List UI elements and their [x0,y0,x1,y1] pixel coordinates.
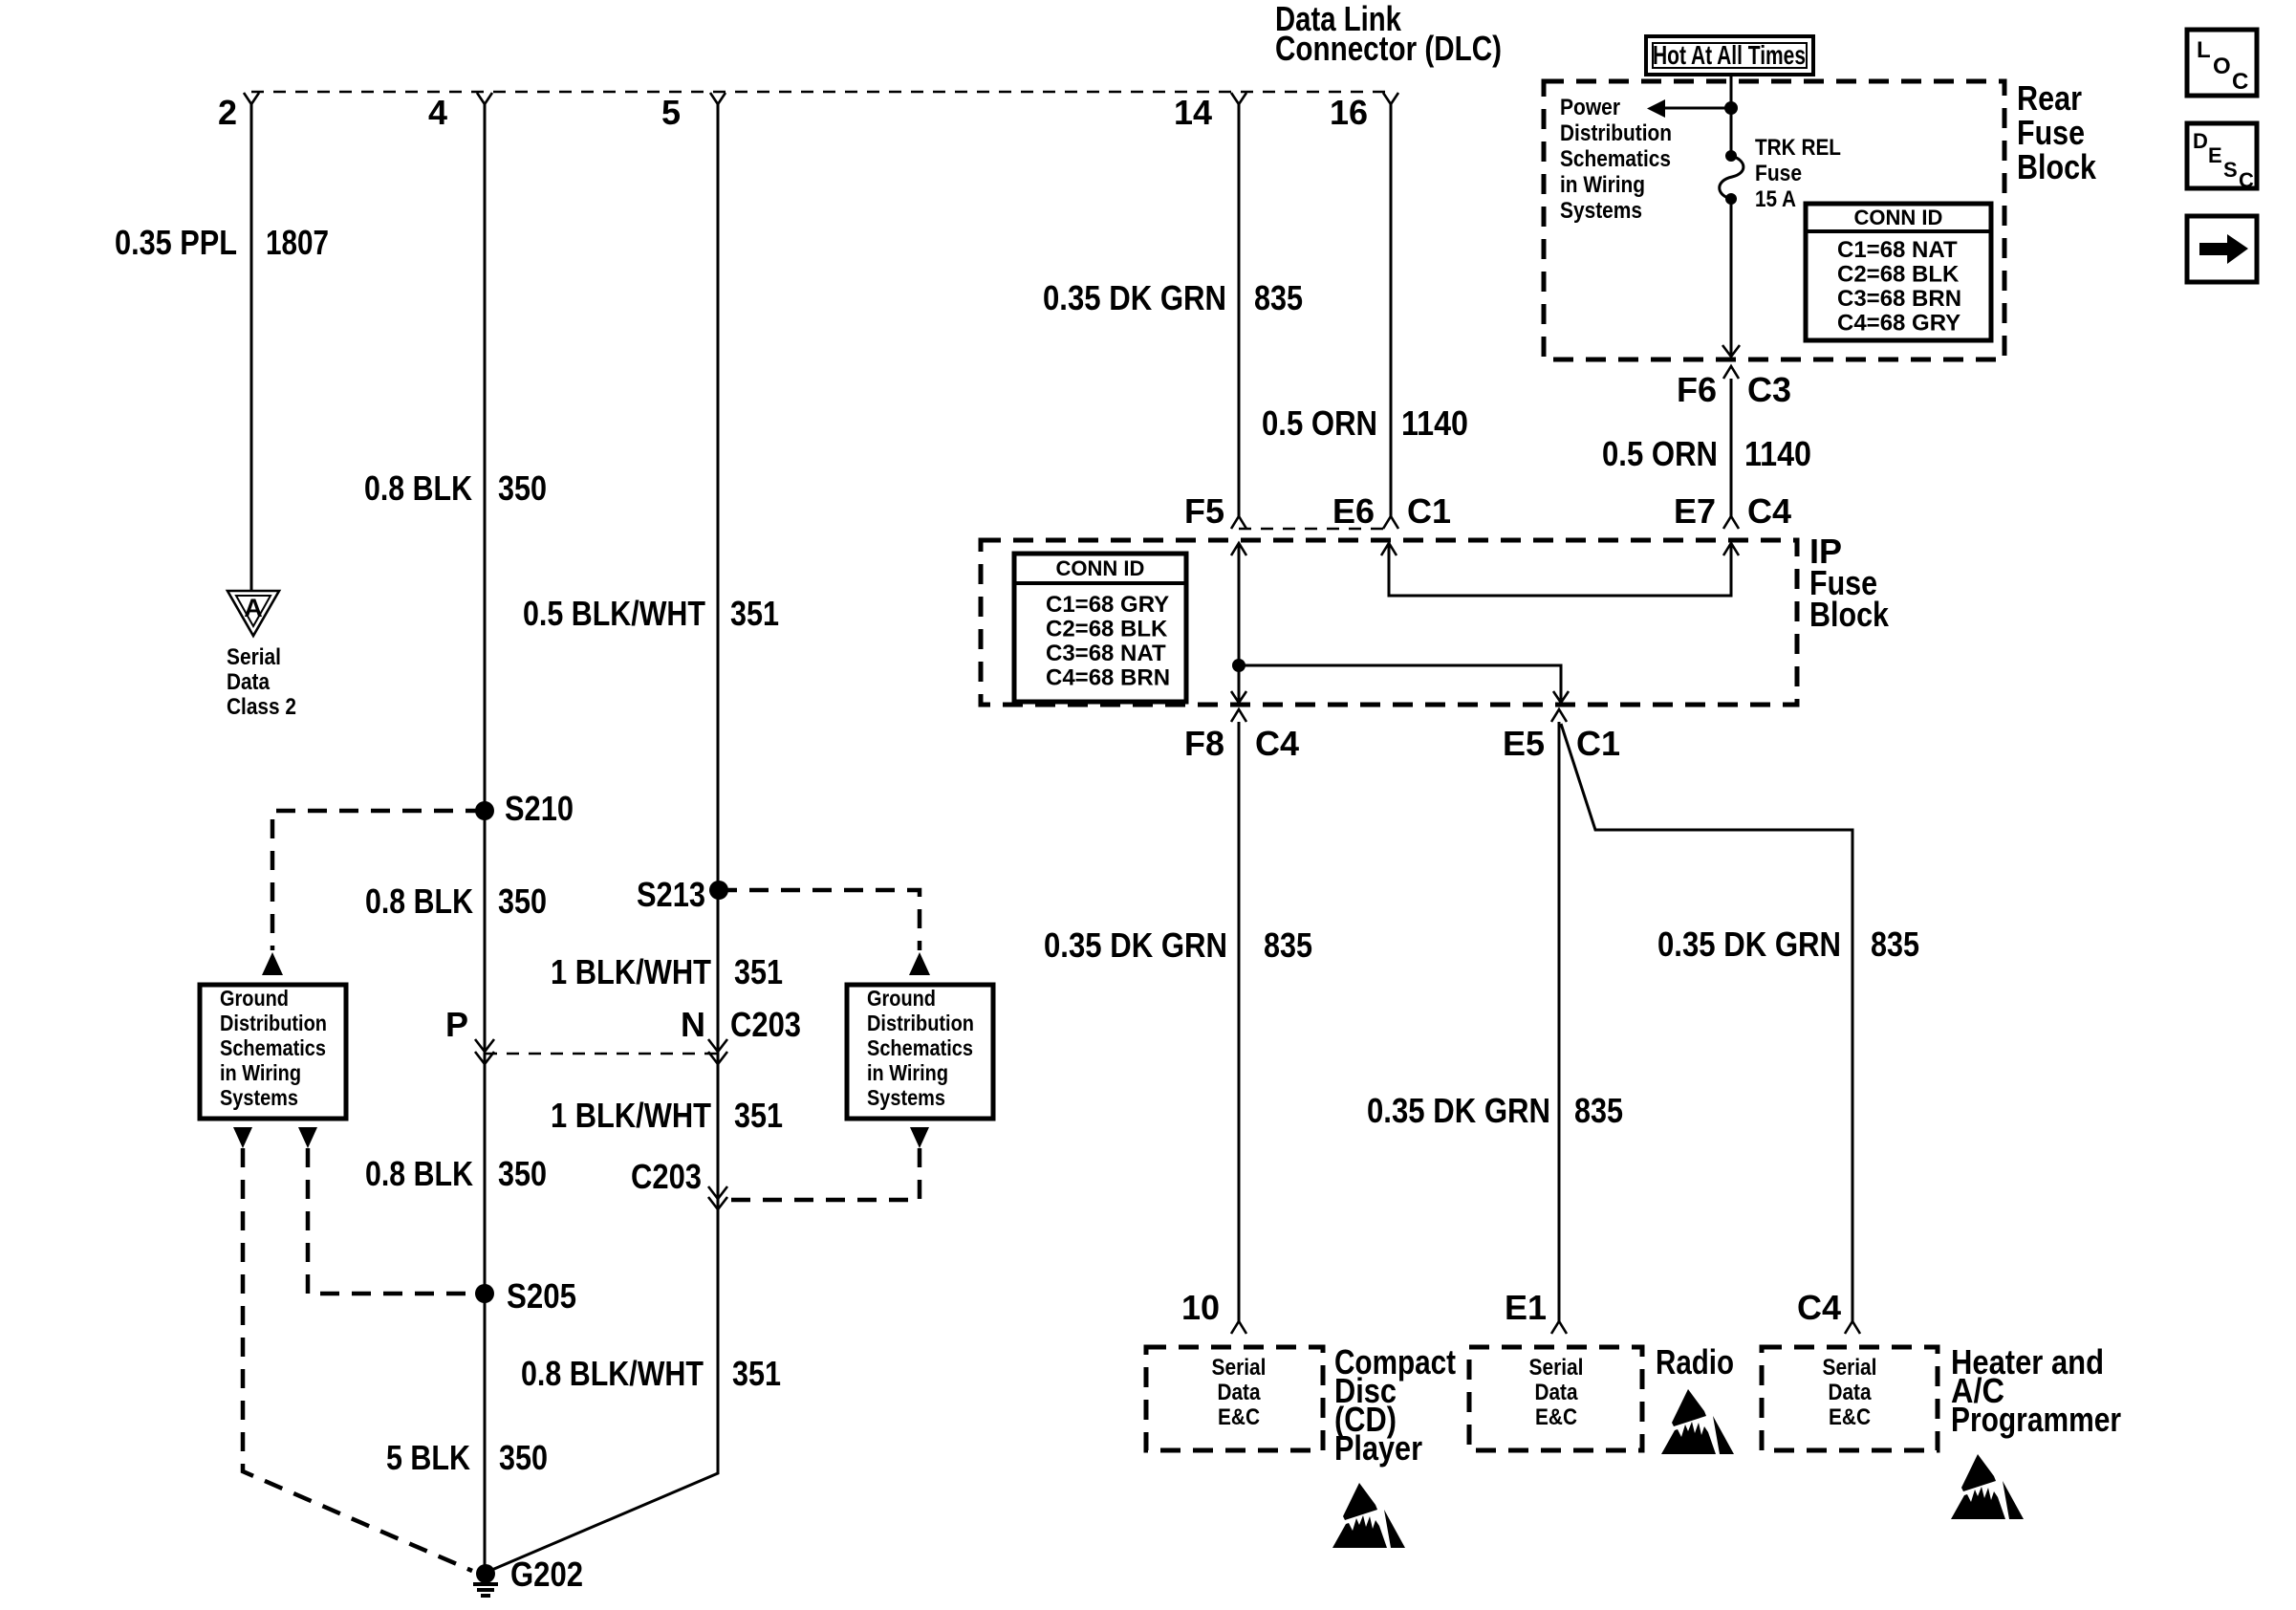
svg-text:P: P [445,1005,468,1044]
svg-text:C203: C203 [730,1005,801,1044]
svg-text:C1=68 GRY: C1=68 GRY [1046,592,1169,618]
wire dashed link S213 to ground distribution (right) [718,890,920,950]
svg-text:in Wiring: in Wiring [867,1060,948,1085]
arrow chevron up at F5 riser [1231,543,1246,555]
node IP Fuse Block dashed box [981,540,1797,705]
value label 0.35 DK GRN 835 (pin 14) [1043,278,1303,317]
svg-text:C4=68 BRN: C4=68 BRN [1046,665,1170,691]
node Serial Data E&C box (Heater A/C) [1762,1347,1938,1450]
splice S213 [637,875,728,914]
value label 0.35 PPL 1807 [115,223,329,262]
node label Serial Data Class 2 [227,644,296,720]
svg-text:CONN ID: CONN ID [1056,556,1145,580]
svg-text:Data: Data [227,669,271,695]
connector C203 pin P chevrons [445,1005,494,1064]
svg-text:351: 351 [730,594,779,633]
svg-text:Fuse: Fuse [1755,161,1802,186]
wire dashed C203 connector line P-N [485,1053,718,1055]
legend DESC box [2187,123,2257,192]
svg-text:Systems: Systems [220,1085,298,1110]
value label 0.5 ORN 1140 (pin 16) [1262,403,1468,443]
svg-text:O: O [2213,54,2231,79]
svg-text:10: 10 [1181,1288,1220,1327]
svg-text:E6: E6 [1332,491,1375,531]
svg-text:5 BLK: 5 BLK [386,1438,470,1477]
value label 0.8 BLK 350 (upper) [364,468,547,508]
splice S205 [475,1276,576,1316]
svg-text:TRK REL: TRK REL [1755,135,1841,161]
svg-text:C1: C1 [1576,724,1620,763]
node Data Link Connector (DLC) label [1275,0,1502,68]
connector pin 5 terminal fork [661,93,726,132]
value label 5 BLK 350 [386,1438,548,1477]
connector E5/C1 fork [1503,709,1620,763]
svg-text:in Wiring: in Wiring [220,1060,301,1085]
connector pin 4 terminal fork [428,93,492,132]
svg-text:Ground: Ground [867,986,936,1011]
connector F6/C3 fork [1677,366,1791,409]
svg-text:Ground: Ground [220,986,289,1011]
svg-text:Serial: Serial [1823,1355,1877,1381]
wire F8 to CD player DK GRN 835 [1238,722,1241,1321]
svg-text:0.8 BLK/WHT: 0.8 BLK/WHT [521,1354,704,1393]
svg-text:350: 350 [498,1154,547,1193]
connector F8/C4 fork [1184,709,1299,763]
node label Heater and A/C Programmer [1951,1342,2121,1439]
junction dot at power distribution tap [1724,101,1738,115]
svg-text:C4: C4 [1747,491,1791,531]
arrow chevron up at E6 riser [1381,543,1397,555]
ESD symbol (CD player) [1332,1483,1405,1548]
svg-text:E&C: E&C [1218,1404,1260,1430]
svg-text:G202: G202 [510,1555,583,1594]
svg-text:Schematics: Schematics [867,1035,973,1060]
svg-text:0.35 DK GRN: 0.35 DK GRN [1367,1091,1550,1130]
wire E5 to Radio DK GRN 835 [1558,722,1561,1321]
svg-text:C3=68 NAT: C3=68 NAT [1046,641,1166,666]
arrow open chevron down at rear block exit [1722,345,1740,357]
connector E7/C4 fork [1674,491,1791,531]
svg-text:Serial: Serial [1529,1355,1584,1381]
wire pin 5 BLK/WHT 351 [487,104,718,1572]
svg-text:E1: E1 [1505,1288,1547,1327]
svg-text:Schematics: Schematics [220,1035,326,1060]
wire dashed link box1 left leg to G202 [243,1148,472,1571]
legend LOC box [2187,30,2257,96]
value label 0.35 DK GRN 835 (CD column) [1044,925,1312,965]
svg-text:Serial: Serial [1212,1355,1267,1381]
wire E5 branch to Heater A/C DK GRN 835 [1561,724,1852,1321]
wire inside IP block: E6 riser to E7 riser [1389,543,1731,596]
svg-text:Block: Block [1809,595,1890,634]
svg-text:0.35 DK GRN: 0.35 DK GRN [1043,278,1226,317]
node label Rear Fuse Block [2017,78,2097,186]
value label 0.8 BLK 350 (middle) [365,881,547,921]
wire dashed link box1 right leg to S205 [308,1148,475,1294]
svg-text:Fuse: Fuse [2017,113,2085,152]
splice S210 [475,789,574,828]
svg-text:351: 351 [732,1354,781,1393]
node Serial Data E&C box (Radio) [1469,1347,1642,1450]
svg-text:15 A: 15 A [1755,186,1796,212]
svg-text:Systems: Systems [1560,198,1642,224]
svg-text:C4: C4 [1797,1288,1841,1327]
svg-text:Systems: Systems [867,1085,945,1110]
value label 1 BLK/WHT 351 (upper) [551,952,783,991]
svg-text:S: S [2223,158,2238,182]
arrow up-triangle into ground distribution box 2 [909,952,930,975]
svg-text:D: D [2193,129,2208,153]
svg-text:F8: F8 [1184,724,1224,763]
svg-text:E7: E7 [1674,491,1716,531]
connector pin 14 terminal fork [1174,93,1246,132]
arrow down-triangle from box 1 (right leg) [298,1127,317,1148]
svg-text:835: 835 [1871,925,1919,964]
svg-text:835: 835 [1574,1091,1623,1130]
svg-text:in Wiring: in Wiring [1560,172,1645,198]
connector E6/C1 fork (pin16 into IP fuse block) [1332,491,1451,531]
wire pin 16 ORN 1140 [1390,104,1393,516]
node label Power Distribution Schematics in Wiring Systems [1560,95,1672,224]
svg-text:Programmer: Programmer [1951,1400,2121,1439]
svg-text:Distribution: Distribution [220,1011,327,1035]
connector pin 2 terminal fork [218,93,259,132]
arrow down-triangle from box 2 [910,1127,929,1148]
svg-text:C1=68 NAT: C1=68 NAT [1837,237,1958,263]
svg-text:835: 835 [1254,278,1303,317]
arrow down-triangle from box 1 (left leg) [233,1127,252,1148]
svg-text:Schematics: Schematics [1560,146,1671,172]
connector pin 10 fork (CD player) [1181,1288,1246,1334]
connector pin E1 fork (Radio) [1505,1288,1567,1334]
svg-text:C3=68 BRN: C3=68 BRN [1837,286,1961,312]
node Serial Data E&C box (CD player) [1146,1347,1323,1450]
svg-text:1 BLK/WHT: 1 BLK/WHT [551,1096,711,1135]
connector pin 16 terminal fork [1330,93,1398,132]
svg-text:14: 14 [1174,93,1212,132]
svg-text:N: N [681,1005,705,1044]
fuse TRK REL 15 A [1720,135,1841,212]
arrow up-triangle into ground distribution box 1 [262,952,283,975]
svg-text:Hot At All Times: Hot At All Times [1653,40,1806,70]
svg-text:351: 351 [734,952,783,991]
svg-text:0.35 DK GRN: 0.35 DK GRN [1044,925,1227,965]
svg-text:Power: Power [1560,95,1620,120]
value label 0.5 BLK/WHT 351 [523,594,779,633]
wire inside IP block: F5 feed-through [1238,543,1241,703]
wire dashed link box2 to C203 [731,1148,920,1200]
svg-text:1140: 1140 [1744,434,1811,473]
wire from Hot At All Times into rear fuse block [1730,75,1733,155]
svg-text:F5: F5 [1184,491,1224,531]
connector F5 fork (pin14 into IP fuse block) [1184,491,1246,531]
wire pin 2 PPL 1807 [250,104,253,591]
node label IP Fuse Block [1809,532,1890,634]
svg-text:E&C: E&C [1829,1404,1871,1430]
wire DLC connector dashed outline (top) [251,91,1391,94]
node CONN ID table (Rear Fuse Block) [1806,204,1991,340]
svg-text:C2=68 BLK: C2=68 BLK [1046,617,1168,642]
wire dashed link S210 to ground distribution (left) [272,811,485,950]
svg-text:350: 350 [499,1438,548,1477]
svg-text:5: 5 [661,93,681,132]
value label 0.35 DK GRN 835 (Radio column) [1367,1091,1623,1130]
svg-text:0.5 ORN: 0.5 ORN [1602,434,1718,473]
svg-text:Rear: Rear [2017,78,2082,118]
svg-text:4: 4 [428,93,447,132]
value label 0.5 ORN 1140 (right) [1602,434,1811,473]
svg-text:0.8 BLK: 0.8 BLK [365,881,473,921]
value label 0.35 DK GRN 835 (Heater column) [1657,925,1919,964]
svg-text:Data: Data [1535,1380,1579,1405]
node Hot At All Times flag [1646,36,1813,75]
svg-text:C: C [2239,168,2254,192]
svg-text:S210: S210 [505,789,574,828]
ESD symbol (Radio) [1661,1389,1734,1454]
svg-text:F6: F6 [1677,370,1717,409]
connector C203 pin N chevrons [681,1005,801,1064]
node Ground Distribution Schematics box 2 [847,985,993,1119]
svg-text:0.35 PPL: 0.35 PPL [115,223,237,262]
ESD symbol (Heater A/C) [1951,1454,2024,1519]
connector pin C4 fork (Heater A/C) [1797,1288,1860,1334]
svg-text:C: C [2232,69,2248,95]
wire F6 to E7 ORN 1140 [1730,379,1733,516]
junction dot inside IP block [1232,659,1245,672]
svg-text:0.8 BLK: 0.8 BLK [364,468,472,508]
svg-text:C2=68 BLK: C2=68 BLK [1837,262,1960,288]
svg-text:350: 350 [498,881,547,921]
svg-text:Connector (DLC): Connector (DLC) [1275,29,1502,68]
arrow chevron down at F8 exit [1231,691,1246,703]
svg-text:0.5 ORN: 0.5 ORN [1262,403,1377,443]
svg-text:0.5 BLK/WHT: 0.5 BLK/WHT [523,594,705,633]
wire pin 4 BLK 350 (to G202) [484,104,487,1574]
svg-text:1140: 1140 [1401,403,1468,443]
svg-text:E&C: E&C [1535,1404,1577,1430]
svg-text:Class 2: Class 2 [227,694,296,720]
node CONN ID table (IP Fuse Block) [1014,554,1186,702]
arrow chevron up at E7 riser [1723,543,1739,555]
value label 0.8 BLK 350 (lower) [365,1154,547,1193]
svg-text:E: E [2208,143,2222,167]
arrow to Power Distribution (solid left arrowhead) [1647,99,1665,118]
svg-text:C4=68 GRY: C4=68 GRY [1837,311,1960,337]
svg-text:A: A [244,594,263,622]
wire pin 14 DK GRN 835 [1238,104,1241,516]
value label 0.8 BLK/WHT 351 [521,1354,781,1393]
svg-text:E5: E5 [1503,724,1545,763]
off-page connector A (Serial Data Class 2) [227,591,279,636]
svg-text:C203: C203 [631,1157,702,1196]
svg-text:C3: C3 [1747,370,1791,409]
node Rear Fuse Block dashed box [1544,81,2004,359]
wire tap to power distribution arrow [1663,107,1731,110]
svg-text:Player: Player [1334,1428,1422,1468]
svg-text:Serial: Serial [227,644,281,670]
svg-text:Distribution: Distribution [867,1011,974,1035]
svg-text:Distribution: Distribution [1560,120,1672,146]
svg-text:16: 16 [1330,93,1368,132]
svg-text:835: 835 [1264,925,1312,965]
svg-text:C1: C1 [1407,491,1451,531]
wire DLC connector dashed outline (bottom segment F5-E6) [1239,528,1391,531]
legend forward arrow box [2187,216,2257,282]
svg-text:L: L [2197,37,2211,63]
wire inside IP block: tap to E5 [1239,665,1561,703]
svg-text:C4: C4 [1255,724,1299,763]
svg-text:1807: 1807 [266,223,329,262]
svg-text:Radio: Radio [1656,1342,1734,1382]
node Ground Distribution Schematics box 1 [200,985,346,1119]
node label Compact Disc (CD) Player [1334,1342,1456,1468]
svg-text:CONN ID: CONN ID [1854,206,1943,229]
svg-text:S213: S213 [637,875,705,914]
value label 1 BLK/WHT 351 (lower) [551,1096,783,1135]
svg-text:Data: Data [1218,1380,1262,1405]
ground G202 [473,1555,583,1598]
arrow chevron down at E5 exit [1553,691,1569,703]
svg-text:350: 350 [498,468,547,508]
wire fuse output down to rear fuse block edge [1730,199,1733,357]
svg-text:Data: Data [1829,1380,1873,1405]
svg-text:0.35 DK GRN: 0.35 DK GRN [1657,925,1841,964]
connector C203 on pin5 wire chevrons [631,1157,727,1209]
svg-text:351: 351 [734,1096,783,1135]
svg-text:1 BLK/WHT: 1 BLK/WHT [551,952,711,991]
svg-text:Block: Block [2017,147,2097,186]
svg-text:0.8 BLK: 0.8 BLK [365,1154,473,1193]
svg-text:2: 2 [218,93,237,132]
svg-text:S205: S205 [507,1276,576,1316]
